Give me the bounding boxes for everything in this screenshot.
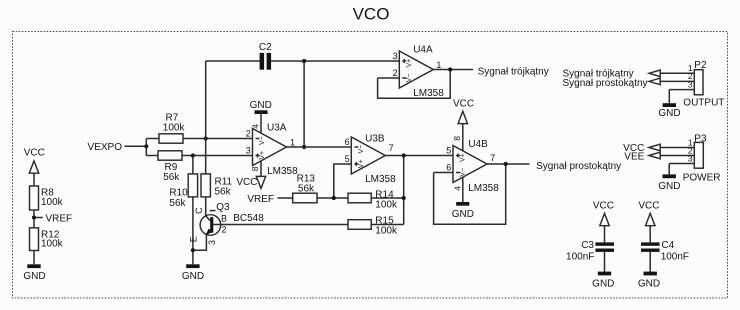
svg-text:7: 7: [490, 153, 495, 163]
svg-text:Sygnał prostokątny: Sygnał prostokątny: [563, 78, 648, 89]
svg-text:V−: V−: [259, 136, 266, 145]
svg-text:3: 3: [393, 51, 398, 61]
svg-text:V+: V+: [259, 151, 266, 160]
svg-text:B: B: [221, 214, 227, 224]
svg-text:GND: GND: [250, 100, 272, 111]
svg-text:6: 6: [446, 162, 451, 172]
svg-text:U3B: U3B: [365, 133, 385, 144]
svg-text:LM358: LM358: [468, 183, 499, 194]
svg-text:VEE: VEE: [624, 151, 644, 162]
svg-text:C2: C2: [259, 42, 272, 53]
svg-text:2: 2: [246, 128, 251, 138]
svg-text:8: 8: [250, 166, 260, 171]
svg-text:100k: 100k: [375, 199, 398, 210]
svg-text:GND: GND: [658, 108, 680, 119]
svg-text:V+: V+: [358, 159, 365, 168]
svg-text:OUTPUT: OUTPUT: [683, 97, 724, 108]
svg-text:7: 7: [389, 143, 394, 153]
svg-text:VEXPO: VEXPO: [88, 142, 123, 153]
svg-text:P3: P3: [694, 134, 707, 145]
svg-text:8: 8: [452, 136, 462, 141]
svg-text:GND: GND: [23, 271, 45, 282]
svg-text:Sygnał trójkątny: Sygnał trójkątny: [478, 67, 549, 78]
svg-text:56k: 56k: [169, 198, 186, 209]
svg-text:C3: C3: [581, 240, 594, 251]
svg-text:100k: 100k: [41, 197, 64, 208]
svg-text:1: 1: [436, 60, 441, 70]
svg-text:1: 1: [290, 137, 295, 147]
svg-text:V−: V−: [358, 145, 365, 154]
svg-text:100nF: 100nF: [661, 251, 689, 262]
svg-text:VREF: VREF: [247, 194, 274, 205]
svg-text:4: 4: [453, 186, 463, 191]
svg-text:3: 3: [688, 154, 693, 164]
svg-text:100nF: 100nF: [566, 251, 594, 262]
svg-text:4: 4: [251, 124, 261, 129]
svg-text:POWER: POWER: [683, 172, 721, 183]
svg-text:P2: P2: [694, 60, 707, 71]
svg-text:3: 3: [688, 79, 693, 89]
svg-text:Q3: Q3: [216, 202, 230, 213]
svg-text:U3A: U3A: [267, 123, 287, 134]
svg-text:56k: 56k: [215, 186, 232, 197]
svg-text:100k: 100k: [41, 238, 64, 249]
svg-text:GND: GND: [182, 271, 204, 282]
svg-text:V+: V+: [460, 153, 467, 162]
svg-text:U4A: U4A: [413, 45, 433, 56]
svg-text:3: 3: [207, 240, 217, 245]
svg-text:VREF: VREF: [46, 213, 73, 224]
svg-text:5: 5: [345, 154, 350, 164]
svg-text:2: 2: [393, 68, 398, 78]
svg-text:2: 2: [222, 225, 227, 235]
svg-text:100k: 100k: [375, 226, 398, 237]
svg-text:5: 5: [446, 145, 451, 155]
svg-text:C: C: [194, 207, 204, 214]
svg-text:GND: GND: [452, 209, 474, 220]
svg-text:3: 3: [246, 145, 251, 155]
svg-text:V−: V−: [460, 168, 467, 177]
svg-text:VCO: VCO: [353, 4, 390, 23]
svg-text:VCC: VCC: [236, 177, 257, 188]
svg-text:VCC: VCC: [638, 200, 659, 211]
svg-text:VCC: VCC: [593, 200, 614, 211]
svg-text:56k: 56k: [298, 184, 315, 195]
svg-text:R10: R10: [169, 188, 188, 199]
svg-text:100k: 100k: [163, 123, 186, 134]
svg-text:56k: 56k: [163, 172, 180, 183]
svg-text:C4: C4: [661, 240, 674, 251]
svg-text:LM358: LM358: [365, 174, 396, 185]
svg-text:GND: GND: [592, 279, 614, 290]
svg-text:GND: GND: [638, 279, 660, 290]
svg-text:Sygnał prostokątny: Sygnał prostokątny: [536, 161, 621, 172]
svg-text:LM358: LM358: [267, 166, 298, 177]
svg-text:U4B: U4B: [468, 139, 488, 150]
svg-text:6: 6: [345, 137, 350, 147]
svg-text:E: E: [189, 236, 199, 242]
svg-text:GND: GND: [658, 181, 680, 192]
svg-text:BC548: BC548: [233, 213, 264, 224]
svg-text:V+: V+: [406, 59, 413, 68]
svg-text:VCC: VCC: [453, 98, 474, 109]
svg-text:VCC: VCC: [24, 147, 45, 158]
svg-text:V−: V−: [406, 73, 413, 82]
